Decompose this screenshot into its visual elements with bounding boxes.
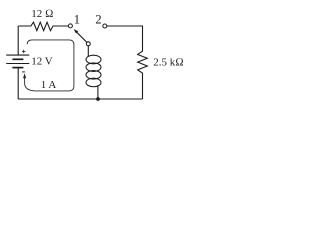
svg-text:12 V: 12 V (31, 55, 53, 67)
svg-text:2.5 kΩ: 2.5 kΩ (153, 57, 183, 69)
svg-text:1 A: 1 A (41, 79, 57, 91)
svg-text:12 Ω: 12 Ω (31, 8, 53, 20)
svg-text:1: 1 (74, 12, 80, 26)
svg-text:2: 2 (95, 12, 101, 26)
